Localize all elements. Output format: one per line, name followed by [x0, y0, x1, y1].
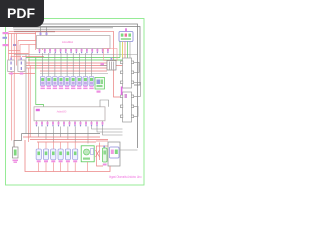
wire gray U2 to K2 b	[97, 127, 123, 133]
wire red bottom bus 2	[30, 139, 108, 141]
wire red vertical left-mid 2	[29, 66, 31, 138]
resistor row R1..R9 with value labels	[40, 77, 94, 90]
wire gray bus 5	[40, 73, 108, 75]
wire red vertical right main	[114, 31, 123, 97]
wire gray bus top 1	[10, 24, 138, 148]
wire red bus 2	[26, 65, 125, 67]
U1 top pin 2	[46, 27, 48, 36]
wire gray bus top 3	[13, 27, 113, 29]
svg-text:Irigasi Otomatis Arduino Uno: Irigasi Otomatis Arduino Uno	[109, 175, 142, 179]
LCD module frame	[108, 142, 120, 166]
wire gray bus top 2	[12, 27, 140, 86]
wire gray left long bus	[22, 133, 101, 135]
wire red top over U1	[9, 30, 114, 32]
wire red left tangle	[9, 34, 45, 66]
transistor Q1 bottom right	[103, 146, 108, 166]
wire gray crystal left	[100, 65, 107, 67]
node labels left top (magenta)	[3, 32, 17, 46]
wire red bottom bus 1	[23, 136, 100, 138]
wire red U3 drop	[124, 42, 126, 66]
wire gray bus top 4	[14, 29, 91, 31]
wire red caps top link	[11, 55, 22, 57]
wire green U3 drop 2	[127, 42, 129, 59]
svg-text:ArduinoMEGA: ArduinoMEGA	[62, 40, 73, 44]
wire red vertical left-mid 1	[28, 68, 30, 142]
label K1 (magenta)	[121, 87, 123, 96]
wire green vertical to U2	[36, 58, 44, 107]
U1 top pin 1	[40, 24, 42, 36]
crystal X1	[101, 58, 117, 71]
wire red bus 4	[40, 70, 107, 72]
wire red vertical left short	[13, 34, 15, 148]
LED row D1..D6 with labels	[36, 149, 78, 162]
svg-text:PDF: PDF	[7, 5, 35, 21]
wire gray bracket 3	[134, 106, 138, 116]
wire gray U2 to K2 a	[92, 127, 123, 130]
wire red bottom bus 3	[37, 141, 96, 143]
wire gray U3 drop	[129, 42, 131, 59]
microcontroller board U1 (Arduino Mega)	[37, 36, 111, 49]
U2 bottom pin row with pin-number labels	[36, 121, 104, 127]
wire green bus 1	[26, 57, 120, 59]
sensor module M2 right of resistor row	[95, 78, 105, 93]
wire red bus 1	[26, 62, 114, 64]
capacitor C1	[8, 58, 15, 75]
wire red bus 3	[26, 67, 114, 69]
microcontroller board U2 (Arduino Uno)	[34, 107, 105, 121]
LCD module display	[110, 147, 120, 158]
capacitor C2	[18, 58, 25, 75]
wire gray LCD to right bus	[120, 149, 138, 151]
motor driver module K1	[120, 58, 133, 88]
sensor U5 bottom left	[13, 147, 19, 163]
wire green bus 2	[28, 59, 123, 61]
U2 pin drop wires	[39, 127, 88, 144]
crystal X1 frame (red)	[104, 49, 118, 61]
wire red bottom right tangle	[96, 141, 109, 166]
wire gray vertical left-mid	[25, 55, 27, 134]
wire gray U2 top loop	[100, 100, 109, 107]
wire red vertical left long	[11, 34, 13, 141]
U1 top pin terminals	[40, 33, 48, 36]
motor driver module K2	[120, 92, 133, 122]
wire gray bus top 5	[14, 31, 55, 33]
U1 bottom pin row with pin-number labels	[39, 49, 109, 54]
wire red vertical left 3	[15, 34, 17, 66]
buzzer BZ1	[81, 146, 94, 162]
PDF badge	[0, 0, 44, 27]
wire gray left corner	[14, 134, 22, 148]
LED row D1..D6 feed wires (red)	[39, 142, 75, 149]
wire yellow U3 drop	[122, 42, 124, 59]
pin drop wires to resistor row	[43, 53, 92, 77]
LED row ground drops (red)	[39, 162, 88, 172]
wire green U3 drop 1	[119, 42, 121, 58]
wire red below caps	[9, 73, 36, 75]
RF module U3 top right	[119, 28, 133, 41]
wire gray U2 to K2 c	[103, 127, 123, 136]
wire gray mid bus	[14, 54, 138, 56]
label K2 (magenta)	[125, 94, 128, 98]
wire gray bracket 1 right of K1	[134, 62, 139, 72]
svg-text:ArduinoUNO: ArduinoUNO	[57, 110, 67, 114]
wire red bottom long	[25, 140, 110, 172]
wire gray bracket 2	[134, 82, 141, 96]
wire red U1 left side	[35, 31, 37, 50]
schematic sheet border (green)	[6, 19, 145, 186]
